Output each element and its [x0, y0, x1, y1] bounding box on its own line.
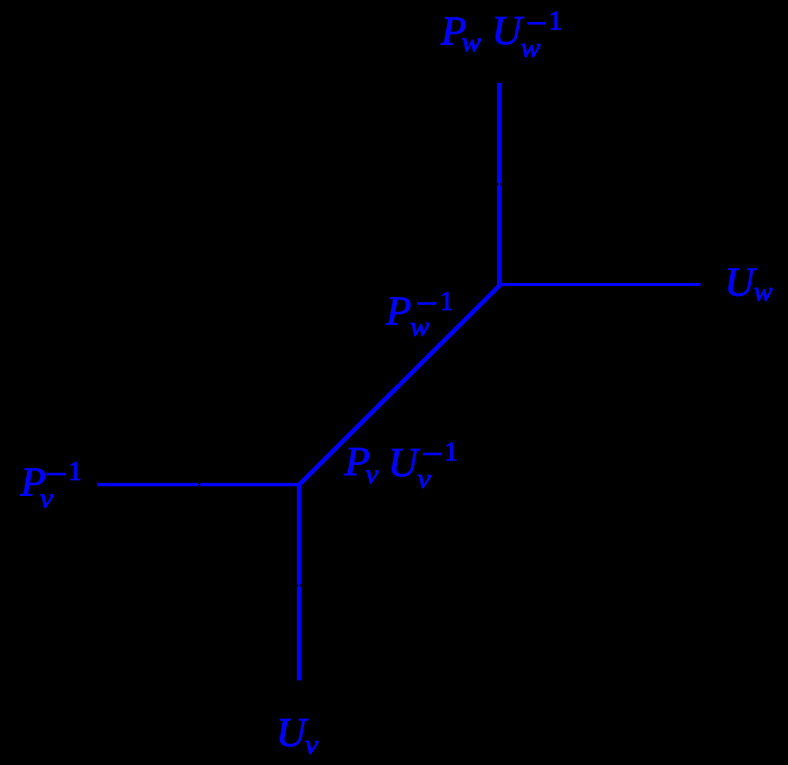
wire: bottom vertical edge (U_v ray) — [297, 485, 301, 681]
node label: U_w (right ray) — [725, 259, 773, 307]
svg-text:1: 1 — [68, 456, 82, 486]
wire: diagonal edge between the two vertices — [299, 284, 501, 485]
wire: top vertical edge (P_w U_w^-1 ray) — [497, 83, 502, 284]
svg-text:v: v — [417, 463, 431, 493]
node: junction nick on top vertical edge — [497, 183, 502, 185]
node: junction nick on left horizontal edge — [198, 483, 200, 486]
node label: U_v (bottom ray) — [276, 709, 318, 760]
wire: left horizontal edge (P_v^-1 ray) — [97, 483, 301, 486]
node: junction nick on bottom vertical edge — [297, 584, 301, 586]
node label: P_w U_w^-1 (top ray) — [440, 6, 562, 63]
node label: P_w^-1 (on diagonal, upper side) — [385, 286, 454, 342]
svg-text:v: v — [365, 459, 378, 489]
svg-text:w: w — [754, 277, 773, 307]
svg-text:w: w — [521, 33, 541, 63]
svg-text:1: 1 — [440, 286, 454, 316]
svg-text:w: w — [410, 312, 430, 342]
svg-text:1: 1 — [549, 6, 563, 36]
svg-text:v: v — [305, 730, 319, 760]
svg-text:1: 1 — [444, 436, 458, 466]
node: junction nick on diagonal edge — [397, 382, 403, 388]
svg-text:U: U — [388, 439, 421, 485]
svg-text:P: P — [385, 288, 411, 334]
svg-text:v: v — [40, 483, 54, 513]
svg-text:U: U — [725, 259, 758, 305]
wire: right horizontal edge (U_w ray) — [500, 283, 701, 286]
node label: P_v^-1 (left ray) — [20, 456, 82, 513]
node label: P_v U_v^-1 (on diagonal, lower side) — [344, 436, 458, 493]
svg-text:w: w — [462, 27, 482, 57]
